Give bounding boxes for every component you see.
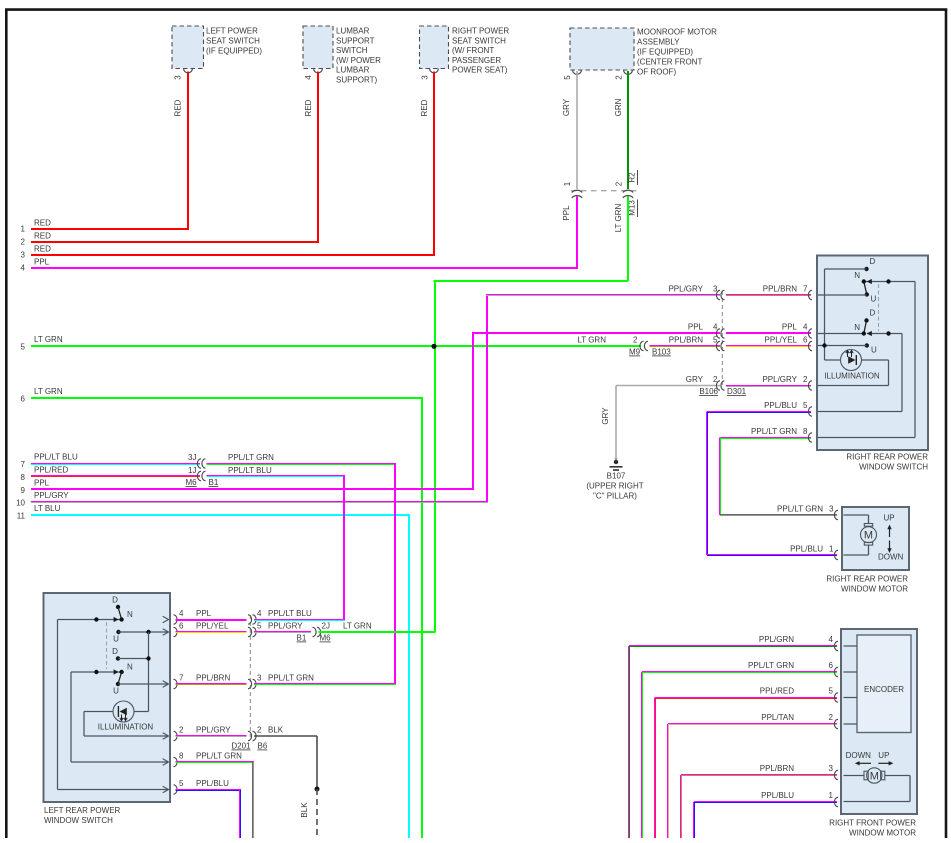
svg-text:PPL/LT BLU: PPL/LT BLU (34, 453, 78, 462)
svg-text:D: D (112, 647, 118, 656)
svg-text:LT GRN: LT GRN (614, 203, 623, 232)
switch pin 6 connector (808, 341, 823, 350)
connector row pin4 arcs (248, 615, 256, 624)
svg-text:PPL: PPL (782, 323, 798, 332)
svg-text:UP: UP (878, 751, 889, 760)
svg-text:RED: RED (420, 99, 429, 116)
svg-text:PPL/BRN: PPL/BRN (760, 764, 794, 773)
svg-text:BLK: BLK (300, 802, 309, 818)
svg-text:D201: D201 (231, 742, 251, 751)
wire PPL/GRN to front motor pin4 (628, 635, 837, 838)
wire 6 LT GRN (21, 387, 423, 838)
wire PPL/BLU to rear motor pin1 (707, 545, 837, 557)
front motor M2 (844, 768, 911, 802)
svg-text:RIGHT FRONT POWER: RIGHT FRONT POWER (829, 819, 916, 828)
lswitch1 N label (127, 610, 133, 619)
encoder box (857, 635, 911, 733)
svg-text:3J: 3J (188, 453, 196, 462)
svg-text:SUPPORT): SUPPORT) (336, 76, 378, 85)
row LT GRN label right (577, 336, 638, 345)
svg-text:M6: M6 (320, 634, 332, 643)
row pin7 PPL/BRN wire (176, 674, 247, 686)
moonroof pin 5 (563, 75, 572, 80)
connector B6 label (258, 742, 268, 751)
row PPL connector arcs (716, 329, 724, 338)
right rear power window switch label (846, 453, 928, 472)
front motor pin 4 connector (834, 641, 849, 650)
svg-text:LEFT REAR POWER: LEFT REAR POWER (44, 806, 121, 815)
row PPL/BLU pin5 wire (706, 401, 811, 555)
svg-text:RED: RED (174, 99, 183, 116)
svg-text:POWER SEAT): POWER SEAT) (452, 66, 508, 75)
svg-text:PPL/BLU: PPL/BLU (764, 401, 797, 410)
svg-text:3: 3 (421, 75, 430, 80)
pin5 internal wire (818, 411, 902, 413)
lswitch2 D contact (112, 647, 151, 661)
row PPL/YEL connector arcs (716, 341, 724, 350)
svg-text:PPL/GRY: PPL/GRY (34, 491, 69, 500)
lswitch v3 wire (148, 632, 150, 712)
svg-text:PPL/LT GRN: PPL/LT GRN (751, 427, 797, 436)
svg-text:2: 2 (615, 75, 624, 80)
right power seat switch (dashed box) (420, 26, 449, 73)
svg-text:PPL/BRN: PPL/BRN (669, 336, 703, 345)
wire 7 right PPL/LT GRN (207, 453, 397, 684)
encoder wires (844, 646, 858, 724)
svg-text:PPL/LT BLU: PPL/LT BLU (268, 609, 312, 618)
svg-text:2: 2 (179, 726, 184, 735)
svg-text:PPL: PPL (196, 609, 212, 618)
inline connector 1J arcs (197, 471, 205, 480)
svg-text:3: 3 (21, 251, 26, 260)
svg-text:D301: D301 (727, 387, 747, 396)
svg-text:M: M (870, 770, 879, 782)
svg-text:SEAT SWITCH: SEAT SWITCH (452, 36, 506, 45)
svg-text:RIGHT REAR POWER: RIGHT REAR POWER (846, 453, 928, 462)
svg-text:PPL: PPL (34, 479, 50, 488)
lswitch2 junction dot (94, 670, 98, 674)
svg-text:7: 7 (21, 460, 26, 469)
inline connector 3J label (188, 453, 196, 462)
svg-text:5: 5 (803, 401, 808, 410)
svg-text:5: 5 (829, 687, 834, 696)
svg-text:8: 8 (21, 473, 26, 482)
svg-text:PPL/RED: PPL/RED (34, 466, 68, 475)
lumbar support switch label (336, 27, 381, 85)
connector row pin2 arcs (248, 731, 256, 740)
svg-text:M9: M9 (629, 348, 641, 357)
switch1 pole wire (864, 282, 915, 438)
svg-text:B106: B106 (699, 387, 718, 396)
svg-text:SWITCH: SWITCH (336, 46, 368, 55)
connector B106 label (699, 387, 718, 396)
svg-text:(CENTER FRONT: (CENTER FRONT (637, 58, 702, 67)
svg-text:PPL: PPL (688, 323, 704, 332)
svg-text:N: N (127, 663, 133, 672)
svg-text:1: 1 (21, 225, 26, 234)
lswitch pin numbers (179, 609, 184, 788)
svg-text:LT GRN: LT GRN (34, 387, 63, 396)
row PPL/LT GRN pin8 wire (719, 427, 811, 515)
moonroof pin 2 (615, 75, 624, 80)
connector M6 label (186, 478, 198, 487)
svg-text:6: 6 (21, 395, 26, 404)
svg-text:8: 8 (179, 752, 184, 761)
row PPL/BRN wire mid (650, 336, 721, 348)
row pin8 PPL/LT GRN wire (176, 752, 255, 839)
wire RED from right power seat switch pin 3 (420, 72, 435, 256)
connector row pin6 arcs (248, 627, 256, 636)
row 4 PPL/LT BLU (254, 609, 345, 621)
svg-text:3: 3 (829, 764, 834, 773)
svg-text:ILLUMINATION: ILLUMINATION (824, 372, 880, 381)
connector D301 label (727, 387, 747, 396)
svg-text:7: 7 (803, 285, 808, 294)
rear motor pin 3 connector (834, 510, 849, 519)
svg-text:WINDOW MOTOR: WINDOW MOTOR (849, 829, 916, 838)
svg-text:D: D (870, 257, 876, 266)
switch1 pole arrow (867, 279, 872, 284)
right rear power window motor box (842, 507, 909, 570)
lswitch2 arm (118, 672, 122, 684)
svg-text:5: 5 (179, 779, 184, 788)
connector M9 label (629, 348, 641, 357)
svg-text:D: D (870, 309, 876, 318)
inline connector R2/M13 dashed line (571, 190, 641, 192)
illumination lamp right (825, 350, 889, 371)
wire 7 PPL/LT BLU (21, 453, 200, 469)
svg-text:(UPPER RIGHT: (UPPER RIGHT (586, 482, 643, 491)
svg-text:U: U (871, 295, 877, 304)
wire PPL/LT GRN to rear motor pin3 (720, 505, 837, 517)
lswitch1 junction dot (94, 617, 98, 621)
svg-text:RED: RED (34, 245, 51, 254)
switch1 U contact (818, 292, 877, 303)
switch mechanical link dashed (878, 284, 880, 331)
front motor pin 5 connector (834, 693, 849, 702)
svg-text:PPL/LT BLU: PPL/LT BLU (228, 466, 272, 475)
svg-text:LUMBAR: LUMBAR (336, 66, 370, 75)
switch pin 8 connector (808, 433, 823, 442)
svg-text:PPL/TAN: PPL/TAN (761, 713, 794, 722)
connector B103 label (652, 348, 671, 357)
row PPL/GRY-PPL/BRN wire left (486, 285, 720, 297)
front motor DOWN arrow (846, 751, 872, 766)
row 3 PPL/LT GRN (254, 674, 396, 686)
lswitch1 U contact (113, 630, 168, 644)
svg-text:DOWN: DOWN (846, 751, 872, 760)
wire PPL/LT GRN to front motor pin6 (641, 661, 837, 838)
inline connector 1J label (188, 466, 196, 475)
row LT GRN to moonroof vertical (319, 622, 436, 634)
svg-text:M6: M6 (186, 478, 198, 487)
inline connector B1/M6 arcs (313, 627, 321, 636)
svg-text:N: N (127, 610, 133, 619)
svg-text:PPL/BRN: PPL/BRN (196, 674, 230, 683)
svg-text:PASSENGER: PASSENGER (452, 56, 501, 65)
svg-text:PPL/BRN: PPL/BRN (763, 285, 797, 294)
svg-text:RIGHT POWER: RIGHT POWER (452, 27, 509, 36)
svg-text:RED: RED (34, 232, 51, 241)
svg-text:2J: 2J (322, 622, 330, 631)
moonroof LT GRN vertical run (434, 280, 629, 632)
rear motor pin 1 connector (834, 550, 849, 559)
left rear switch label (44, 806, 121, 825)
wire 10 vertical to PPL/GRY row (486, 294, 488, 502)
svg-text:PPL/YEL: PPL/YEL (196, 622, 229, 631)
wire PPL/BRN to front motor pin3 (680, 764, 837, 838)
svg-text:3: 3 (257, 674, 262, 683)
connector M6 label row632 (320, 634, 332, 643)
switch1 D wire (825, 269, 867, 360)
rear motor DOWN arrow (878, 541, 904, 562)
svg-text:4: 4 (257, 609, 262, 618)
switch pin 5 connector (808, 407, 823, 416)
junction dot BLK (315, 787, 320, 792)
row PPL/BRN pin7 wire (726, 285, 811, 297)
inline connector 3J arcs (197, 459, 205, 468)
row PPL/YEL pin6 wire (726, 336, 811, 348)
lswitch1 pivot dot (119, 617, 123, 621)
switch1 N label (854, 271, 860, 280)
svg-text:ILLUMINATION: ILLUMINATION (98, 723, 154, 732)
svg-text:OF ROOF): OF ROOF) (637, 68, 676, 77)
connector row pin7 arcs (248, 679, 256, 688)
svg-text:"C" PILLAR): "C" PILLAR) (593, 492, 637, 501)
illumination lamp left (84, 701, 149, 722)
svg-text:PPL/BLU: PPL/BLU (761, 791, 794, 800)
svg-text:GRY: GRY (601, 407, 610, 425)
wire 1 RED (21, 219, 189, 234)
svg-text:WINDOW MOTOR: WINDOW MOTOR (841, 585, 908, 594)
svg-text:PPL/YEL: PPL/YEL (765, 336, 798, 345)
switch1 arm (864, 282, 867, 295)
row pin2 PPL/GRY wire (176, 726, 247, 738)
switch2 pivot dot (862, 331, 866, 335)
svg-text:4: 4 (21, 264, 26, 273)
svg-text:6: 6 (829, 661, 834, 670)
svg-text:RED: RED (304, 99, 313, 116)
svg-text:PPL/LT GRN: PPL/LT GRN (777, 505, 823, 514)
switch2 D contact (864, 309, 876, 334)
svg-text:PPL/BLU: PPL/BLU (196, 779, 229, 788)
svg-text:PPL/GRY: PPL/GRY (668, 285, 703, 294)
svg-text:8: 8 (803, 427, 808, 436)
svg-text:U: U (113, 687, 119, 696)
lumbar support switch pin 4 (304, 75, 313, 80)
svg-text:ENCODER: ENCODER (864, 685, 904, 694)
lswitch2 pole arrow (114, 669, 119, 674)
switch pin 4 connector (808, 329, 823, 338)
svg-text:LT BLU: LT BLU (34, 504, 61, 513)
svg-text:MOONROOF MOTOR: MOONROOF MOTOR (637, 28, 717, 37)
inline connector M9/B103 arcs (640, 341, 648, 350)
wire 11 LT BLU (17, 504, 410, 838)
svg-text:(W/ POWER: (W/ POWER (336, 56, 381, 65)
wire RED from left power seat switch pin 3 (174, 72, 190, 230)
svg-text:PPL/BLU: PPL/BLU (790, 545, 823, 554)
svg-text:10: 10 (16, 499, 25, 508)
svg-text:RIGHT REAR POWER: RIGHT REAR POWER (826, 575, 908, 584)
row PPL/GRY pin2 wire (726, 375, 811, 387)
moonroof motor assembly (dashed box) (570, 28, 634, 74)
connector D201 label (231, 742, 251, 751)
svg-text:2: 2 (829, 713, 834, 722)
row pin6 PPL/YEL wire (176, 622, 247, 634)
front motor UP arrow (878, 751, 893, 766)
svg-text:1J: 1J (188, 466, 196, 475)
connector B1 label (209, 478, 219, 487)
svg-text:GRY: GRY (686, 375, 704, 384)
wire 8 PPL/RED (21, 466, 200, 482)
svg-text:BLK: BLK (268, 726, 284, 735)
switch pin 7 connector (808, 290, 823, 299)
wire RED from lumbar support switch pin 4 (304, 72, 319, 243)
svg-text:LT GRN: LT GRN (343, 622, 372, 631)
lswitch2 U contact (113, 682, 168, 696)
svg-text:LEFT POWER: LEFT POWER (206, 27, 258, 36)
svg-text:N: N (854, 271, 860, 280)
lswitch mechanical link dashed (106, 622, 108, 669)
svg-text:PPL/LT GRN: PPL/LT GRN (196, 752, 242, 761)
connector B106/D301 arcs (716, 381, 724, 390)
svg-text:PPL/GRN: PPL/GRN (759, 635, 794, 644)
switch2 U contact (818, 343, 877, 354)
svg-text:U: U (113, 635, 119, 644)
wire GRY drop (601, 386, 616, 459)
svg-text:2: 2 (803, 375, 808, 384)
lamp to pin2 wire left (84, 712, 168, 737)
lswitch2 pivot dot (119, 670, 123, 674)
wire LT GRN below connector R2 (614, 197, 629, 282)
wire 2 RED (21, 232, 319, 247)
connector 2J label (322, 622, 330, 631)
svg-text:4: 4 (304, 75, 313, 80)
right power seat switch pin 3 (421, 75, 430, 80)
front motor pin 2 connector (834, 719, 849, 728)
svg-text:LT GRN: LT GRN (34, 335, 63, 344)
svg-text:1: 1 (829, 791, 834, 800)
wire 4 PPL to moonroof (21, 258, 578, 273)
inline connector column dashed line (721, 291, 723, 385)
switch2 pole arrow (867, 331, 872, 336)
svg-text:PPL/GRY: PPL/GRY (196, 726, 231, 735)
svg-text:M: M (864, 530, 873, 542)
switch2 U junction dot (822, 343, 826, 347)
svg-text:PPL/LT GRN: PPL/LT GRN (748, 661, 794, 670)
svg-text:GRY: GRY (562, 98, 571, 116)
wire 9 PPL (21, 479, 474, 495)
svg-text:RED: RED (34, 219, 51, 228)
left power seat switch pin 3 (174, 75, 183, 80)
pin8 internal wire (818, 437, 915, 439)
svg-text:WINDOW SWITCH: WINDOW SWITCH (44, 816, 113, 825)
svg-text:PPL: PPL (34, 258, 50, 267)
junction dot wire5 / moonroof LT GRN (431, 344, 436, 349)
svg-text:2: 2 (633, 336, 638, 345)
wire 8 right PPL/LT BLU (207, 466, 346, 620)
lswitch1 D contact (112, 596, 121, 620)
svg-text:ASSEMBLY: ASSEMBLY (637, 38, 680, 47)
wire 5 LT GRN (21, 335, 641, 352)
wire 3 RED (21, 245, 435, 260)
svg-text:PPL/GRY: PPL/GRY (762, 375, 797, 384)
wire PPL below connector R2 (562, 197, 578, 269)
illumination label right (824, 372, 880, 381)
right front power window motor label (829, 819, 916, 838)
svg-text:B6: B6 (258, 742, 268, 751)
switch pin 2 connector (808, 381, 823, 390)
rear motor UP arrow (884, 514, 895, 538)
wire 10 PPL/GRY (16, 491, 488, 507)
svg-text:PPL/GRY: PPL/GRY (268, 622, 303, 631)
svg-text:R2: R2 (628, 172, 637, 183)
svg-text:4: 4 (179, 609, 184, 618)
connector pin 2 label (615, 181, 624, 186)
svg-text:(IF EQUIPPED): (IF EQUIPPED) (206, 47, 262, 56)
svg-text:4: 4 (803, 323, 808, 332)
svg-text:3: 3 (174, 75, 183, 80)
svg-text:B103: B103 (652, 348, 671, 357)
svg-text:LUMBAR: LUMBAR (336, 27, 370, 36)
svg-text:9: 9 (21, 486, 26, 495)
svg-text:3: 3 (829, 505, 834, 514)
wire PPL/BLU to front motor pin1 (693, 791, 837, 838)
switch2 junction dot (886, 331, 890, 335)
switch1 D contact (864, 257, 875, 271)
svg-text:6: 6 (803, 336, 808, 345)
svg-text:SEAT SWITCH: SEAT SWITCH (206, 37, 260, 46)
svg-text:PPL/LT GRN: PPL/LT GRN (268, 674, 314, 683)
wire BLK dashed off-page (300, 789, 317, 838)
lswitch2 pole wire (71, 672, 168, 762)
svg-text:5: 5 (21, 343, 26, 352)
svg-text:2: 2 (615, 181, 624, 186)
lamp to pin2 wire (818, 360, 889, 386)
front motor pin 1 connector (834, 797, 849, 806)
switch2 pole wire (818, 334, 902, 412)
svg-text:4: 4 (829, 635, 834, 644)
ground B107 label (586, 472, 643, 501)
row 2 BLK (254, 726, 317, 737)
svg-text:1: 1 (829, 545, 834, 554)
svg-text:UP: UP (884, 514, 895, 523)
left power seat switch (dashed box) (172, 26, 204, 73)
svg-text:7: 7 (179, 674, 184, 683)
row pin4 PPL wire (176, 609, 247, 621)
right rear power window switch box (817, 256, 928, 451)
wire GRY from moonroof pin 5 (562, 71, 577, 189)
rear motor M1 (844, 515, 877, 555)
svg-text:11: 11 (17, 512, 26, 521)
svg-text:6: 6 (179, 622, 184, 631)
wire 9 vertical to PPL row (472, 332, 474, 489)
illumination label left (98, 723, 154, 732)
lumbar support switch (dashed box) (303, 26, 333, 73)
svg-text:B1: B1 (209, 478, 219, 487)
moonroof motor assembly label (637, 28, 717, 77)
left rear power window switch box (44, 593, 171, 802)
right front power window motor box (841, 629, 917, 814)
switch1 pivot dot (862, 279, 866, 283)
left power seat switch label (206, 27, 262, 56)
connector R2 halves on GRN wire (623, 190, 633, 198)
svg-text:PPL/LT GRN: PPL/LT GRN (228, 453, 274, 462)
svg-text:D: D (112, 596, 118, 605)
svg-text:B107: B107 (607, 472, 626, 481)
switch1 junction dot (886, 279, 890, 283)
svg-text:U: U (871, 346, 877, 355)
